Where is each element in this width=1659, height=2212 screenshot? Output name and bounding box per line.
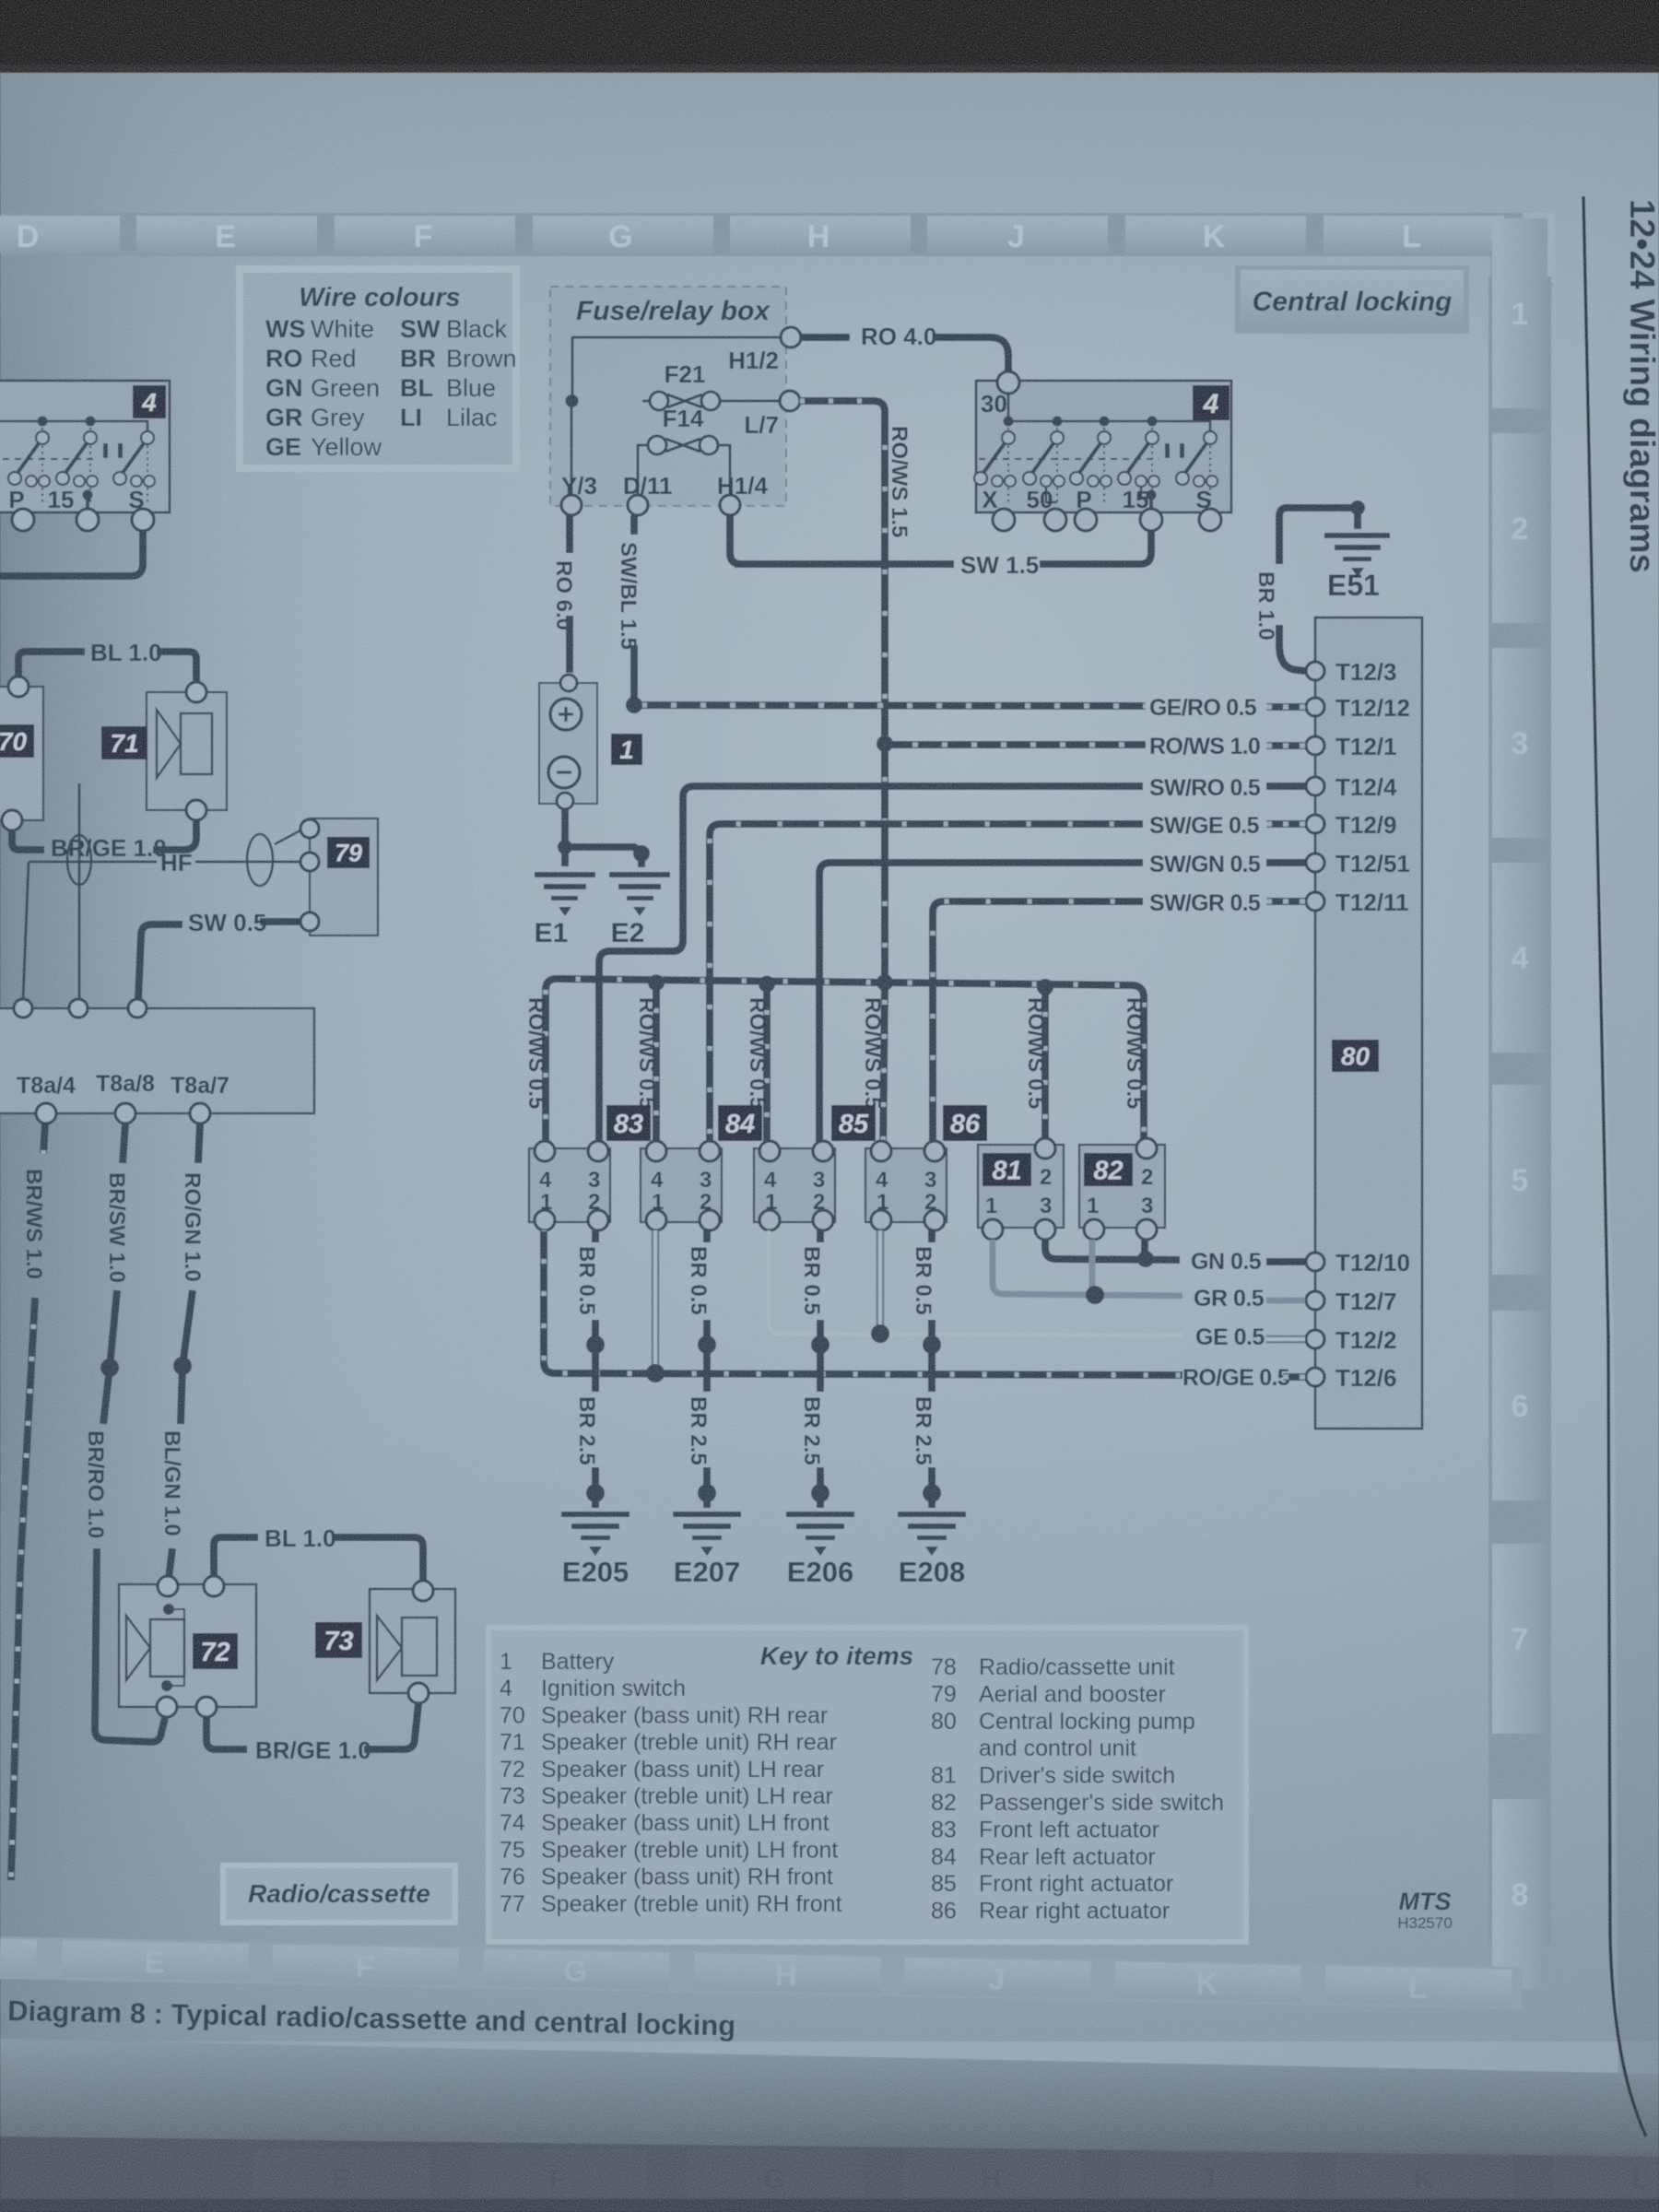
node E51 [1350, 500, 1365, 515]
tag 86 [943, 1105, 987, 1141]
wire RO 6.0 [566, 515, 573, 553]
tag 80 [1332, 1040, 1379, 1072]
switch U82 connector [1079, 1145, 1165, 1228]
wire GN 0.5 to T12/10 [1045, 1240, 1180, 1260]
aerial and booster U79 [310, 818, 378, 935]
wire SW 1.5 from H1/4 to ignition 15 [726, 515, 734, 553]
node junction E205 top [586, 1335, 605, 1354]
terminal Y/3 [561, 495, 582, 515]
terminal H1/2 [781, 327, 801, 347]
Central locking caption tile [1235, 265, 1469, 334]
battery plus terminal [550, 699, 582, 730]
terminal T12/11 [1306, 892, 1324, 911]
wire BR/SW 1.0 / BR/RO 1.0 [123, 1124, 125, 1163]
ground E1 [535, 872, 595, 877]
wire RO/WS 1.0 to T12/1 [892, 741, 1146, 748]
footer diagram title [7, 1994, 736, 2042]
node junction E206 top [811, 1335, 829, 1354]
wire BR/GE 1.0 (72 to 73) [206, 1717, 247, 1749]
tag 84 [718, 1105, 762, 1141]
tag 1 [611, 734, 642, 765]
wire F14 to H1/4 [725, 445, 730, 495]
fuse F14 [641, 444, 648, 447]
grid letter bar (bottom) [0, 1936, 1523, 2009]
terminal T12/3 [1306, 662, 1324, 680]
terminal D/11 [628, 495, 648, 515]
terminal T12/4 [1306, 777, 1324, 795]
tag 85 [831, 1105, 876, 1141]
wire RO/WS 0.5 drop [1041, 986, 1049, 1151]
bottom terminals [993, 509, 1015, 531]
hook wire 50-15 [1046, 487, 1057, 502]
actuator U85 connector [754, 1148, 835, 1222]
grid number column (right) [1488, 276, 1551, 1945]
wire RO/WS 0.5 distribution bus [546, 979, 1144, 1154]
wire H1/2 feed [572, 337, 782, 401]
speaker U72 [119, 1584, 256, 1707]
wire BR/WS 1.0 (striped, drifts left) [43, 1124, 45, 1154]
ignition switch U4 (right) [976, 381, 1231, 512]
central locking pump unit U80 [1315, 618, 1422, 1429]
wire RO/GE 0.5 to T12/6 [544, 1230, 1182, 1375]
Radio/cassette caption box [220, 1863, 458, 1925]
wire BR 0.5 / BR 2.5 column E207 [703, 1230, 711, 1242]
wire SW/RO 0.5 to T12/4 (S-path to actuator 83) [599, 786, 1143, 1014]
wire BR 0.5 / BR 2.5 column E208 [928, 1230, 935, 1242]
terminal T12/6 [1306, 1368, 1324, 1386]
node bus junction x=1134 [1037, 979, 1053, 995]
fuse F21 [642, 400, 650, 403]
speaker U71 [147, 692, 227, 810]
grid letter bar (top) [0, 213, 1523, 256]
wire left coax vertical [23, 862, 29, 999]
wire SW/GE 0.5 to T12/9 [710, 824, 1143, 1143]
tag 81 [982, 1153, 1031, 1186]
wire BL 1.0 (72 to 73) [214, 1537, 258, 1576]
actuator U83 connector [529, 1148, 610, 1222]
terminal T12/2 [1306, 1330, 1324, 1348]
fuse/relay box [550, 287, 786, 506]
wire BL 1.0 (70 to 71) [18, 652, 85, 677]
terminal T12/12 [1306, 698, 1324, 716]
terminal T12/1 [1306, 736, 1324, 755]
ground E208 [898, 1512, 966, 1517]
switch contacts [1007, 428, 1009, 502]
wire BR 0.5 / BR 2.5 column E206 [817, 1230, 824, 1242]
terminal H1/4 [720, 495, 740, 515]
internal bus [1007, 394, 1010, 421]
wire RO/WS 1.5 vertical [800, 397, 874, 405]
wire GE 0.5 to T12/2 [769, 1230, 1185, 1335]
ground E206 [786, 1512, 854, 1517]
terminal T12/51 [1306, 853, 1324, 872]
wire SW/GN 0.5 to T12/51 [819, 863, 1143, 1143]
switch U81 connector [978, 1145, 1064, 1228]
tag 4 [1193, 385, 1230, 420]
wire SW/BL 1.5 [630, 515, 638, 535]
speaker U73 [370, 1589, 455, 1693]
ignition switch U4 (left, partial) [0, 381, 170, 512]
wire GR 0.5 to T12/7 [993, 1240, 1182, 1296]
wire colours legend box [236, 265, 520, 472]
radio/cassette U78 connector [0, 1008, 314, 1113]
ground E207 [673, 1512, 741, 1517]
coax screen oval [247, 834, 273, 886]
wire BR 0.5 / BR 2.5 column E205 [592, 1230, 599, 1242]
wire F14 to D/11 [638, 445, 641, 495]
node junction E208 top [923, 1335, 941, 1354]
terminal T12/10 [1306, 1253, 1324, 1271]
speaker U70 connector (partial) [0, 687, 43, 820]
terminal L/7 [780, 391, 800, 411]
wire from S left switch [0, 531, 143, 576]
terminal T12/7 [1306, 1291, 1324, 1310]
mechanical link dashed [979, 458, 1159, 460]
wire SW 0.5 (79 to radio) [260, 918, 300, 925]
key to items panel [486, 1625, 1249, 1945]
wire RO/WS 0.5 drop [653, 982, 660, 1151]
node junction Y/3 column [571, 401, 573, 498]
ground E205 [561, 1512, 629, 1517]
tag 82 [1084, 1153, 1133, 1186]
node junction E207 top [698, 1335, 716, 1354]
terminal T12/9 [1306, 815, 1324, 833]
wire HF [29, 861, 157, 864]
wire GE/RO 0.5 to T12/12 [641, 705, 1146, 706]
actuator U86 connector [865, 1148, 947, 1222]
terminal 30 [997, 371, 1019, 394]
wire RO/GN 1.0 / BL/GN 1.0 [198, 1124, 200, 1163]
battery U1 [539, 683, 597, 804]
wire SW/GR 0.5 to T12/11 [933, 901, 1143, 1143]
wire RO 4.0 from H1/2 to ignition switch 30 [801, 334, 850, 341]
ground E51 [1324, 533, 1390, 538]
page header rule [1583, 196, 1646, 2136]
tag 83 [606, 1105, 651, 1141]
actuator U84 connector [641, 1148, 722, 1222]
wire BR 1.0 / E51 branch [1287, 504, 1351, 512]
node bus junction x=712 [648, 974, 665, 991]
wire BR/GE 1.0 (70 to 71) [12, 830, 44, 850]
grid corner piece [1490, 213, 1555, 286]
wire RO/WS 0.5 drop [763, 984, 771, 1151]
wire battery minus to grounds [561, 809, 569, 847]
ground E2 [609, 872, 670, 877]
key position marks [1165, 443, 1170, 458]
node bus junction x=832 [759, 976, 775, 993]
battery minus terminal [548, 757, 580, 788]
